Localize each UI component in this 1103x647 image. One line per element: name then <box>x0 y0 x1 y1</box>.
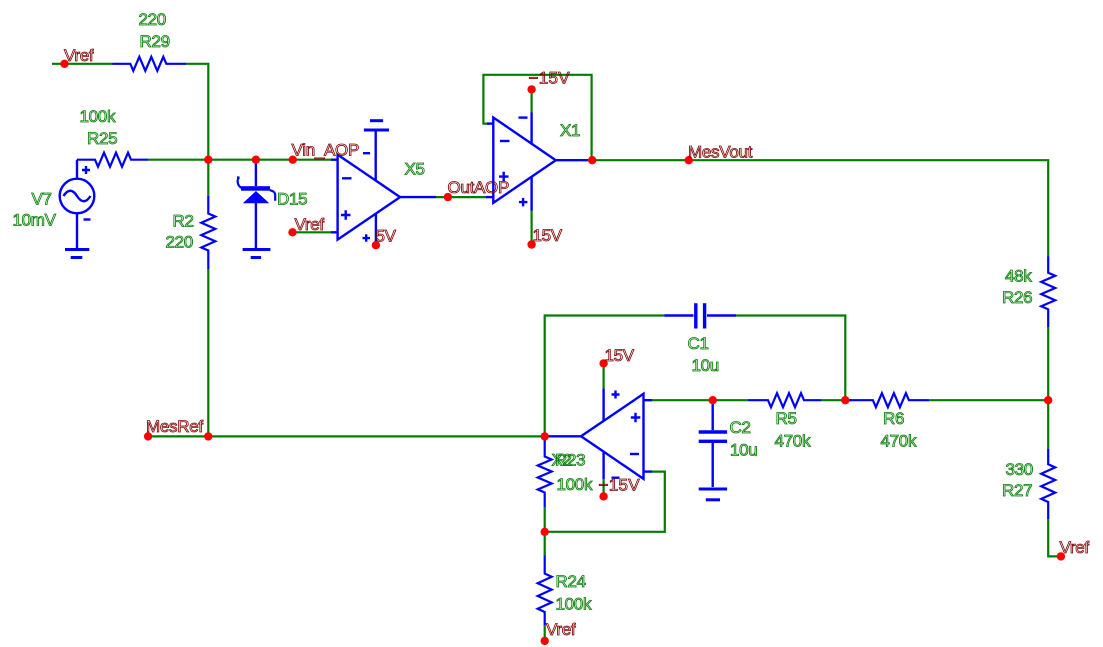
node MesVout <box>685 156 693 164</box>
svg-text:MesVout: MesVout <box>688 142 753 161</box>
svg-text:D15: D15 <box>277 190 307 209</box>
ground below V7 <box>65 250 89 258</box>
svg-text:R23: R23 <box>555 451 585 470</box>
resistor R2 <box>201 196 215 269</box>
svg-text:15V: 15V <box>533 226 563 245</box>
op-amp X1 <box>486 113 588 211</box>
svg-text:10u: 10u <box>692 356 719 375</box>
svg-text:470k: 470k <box>881 431 917 450</box>
svg-text:Vref: Vref <box>546 620 576 639</box>
svg-text:220: 220 <box>166 233 193 252</box>
svg-text:R25: R25 <box>87 129 117 148</box>
svg-text:−15V: −15V <box>599 476 641 495</box>
resistor R25 <box>77 153 148 167</box>
svg-text:R29: R29 <box>140 32 170 51</box>
svg-text:OutAOP: OutAOP <box>448 178 510 197</box>
capacitor C1 <box>664 303 736 328</box>
svg-text:10u: 10u <box>730 440 757 459</box>
resistor R5 <box>748 393 822 407</box>
svg-text:C1: C1 <box>688 334 709 353</box>
node C2 junction <box>709 396 717 404</box>
wire X1 top power to -15V <box>530 89 532 112</box>
svg-text:48k: 48k <box>1005 267 1032 286</box>
op-amp X2 <box>548 388 652 479</box>
resistor R24 <box>538 556 552 626</box>
svg-text:470k: 470k <box>775 431 811 450</box>
resistor R26 <box>1041 256 1055 327</box>
wire X2 minus loop <box>545 472 665 532</box>
wire Vref to R29 <box>52 63 113 65</box>
ground below D15 <box>243 250 271 258</box>
svg-text:R26: R26 <box>1002 288 1032 307</box>
wire right junction to R27 <box>1047 400 1049 448</box>
node OutAOP <box>444 193 452 201</box>
svg-text:−15V: −15V <box>529 68 571 87</box>
wire R25 to X5 minus input <box>148 159 331 161</box>
node 15V X1 <box>527 240 535 248</box>
svg-text:Vref: Vref <box>64 46 94 65</box>
node 5V <box>372 241 380 249</box>
svg-text:C2: C2 <box>730 418 751 437</box>
ground above X5 <box>364 121 389 130</box>
wire R6 junction left lead join <box>845 399 852 401</box>
wire R6 to right junction <box>929 399 1048 401</box>
capacitor C2 <box>699 400 727 487</box>
node 15V X2 <box>599 359 607 367</box>
source V7 <box>60 160 95 249</box>
node X2 output junction <box>541 432 549 440</box>
wire X2 plus input to C2 junction to R5 <box>652 399 748 401</box>
svg-text:R6: R6 <box>883 409 904 428</box>
svg-text:R2: R2 <box>173 212 194 231</box>
wire MesRef run <box>148 435 550 437</box>
node main junction R29/R25/R2 <box>204 156 212 164</box>
node -15V X2 <box>599 492 607 500</box>
wire R5 to R6 junction <box>821 399 848 401</box>
svg-text:100k: 100k <box>557 475 593 494</box>
wire C1 right to junction <box>736 316 845 401</box>
wire R29 to corner to junction <box>186 64 208 196</box>
node Vref bottom <box>541 637 549 645</box>
node right junction R26/R6/R27 <box>1044 396 1052 404</box>
wire X2 top power to 15V <box>602 363 604 388</box>
node Vref at X5 plus <box>288 228 296 236</box>
node Vin_AOP <box>289 156 297 164</box>
resistor R29 <box>113 57 187 71</box>
wire R24 segments <box>544 532 546 556</box>
node MesRef left <box>144 432 152 440</box>
node -15V X1 <box>527 85 535 93</box>
svg-text:V7: V7 <box>32 190 52 209</box>
wire R2 bottom to MesRef line <box>207 269 209 436</box>
node Vref bottom right <box>1057 552 1065 560</box>
wire R23 junction segments <box>544 436 546 441</box>
wire OutAOP X5 output to X1 plus input <box>436 196 487 198</box>
node MesRef junction R2 <box>204 432 212 440</box>
wire X1 bottom power to 15V <box>530 210 532 245</box>
wire MesVout run <box>588 160 1048 256</box>
svg-text:15V: 15V <box>605 346 635 365</box>
wire X1 feedback loop <box>483 75 591 160</box>
resistor R6 <box>848 393 929 407</box>
svg-text:R5: R5 <box>776 409 797 428</box>
resistor R23 <box>538 440 552 507</box>
wire C1 loop left vertical <box>545 316 665 437</box>
svg-text:10mV: 10mV <box>13 211 57 230</box>
node D15 top <box>252 156 260 164</box>
ground below C2 <box>699 489 727 500</box>
svg-text:220: 220 <box>139 10 166 29</box>
op-amp X5 <box>331 131 436 245</box>
svg-text:Vref: Vref <box>295 215 325 234</box>
components-group <box>77 57 1055 626</box>
wire R26 to right junction <box>1047 327 1049 400</box>
svg-text:R24: R24 <box>556 572 586 591</box>
zener diode D15 <box>237 161 275 249</box>
svg-text:Vref: Vref <box>1060 538 1090 557</box>
node R5/R6/C1 junction <box>841 396 849 404</box>
svg-text:X1: X1 <box>560 121 580 140</box>
resistor R27 <box>1041 449 1055 520</box>
svg-text:X5: X5 <box>405 160 425 179</box>
svg-text:Vin_AOP: Vin_AOP <box>292 141 360 160</box>
wire X2 bottom power to -15V <box>602 479 604 496</box>
svg-text:100k: 100k <box>80 107 116 126</box>
node feedback junction X1 <box>588 156 596 164</box>
node R23/R24 junction <box>541 528 549 536</box>
wire R27 to Vref bottom right <box>1048 519 1061 556</box>
svg-text:MesRef: MesRef <box>146 417 203 436</box>
svg-text:R27: R27 <box>1002 481 1032 500</box>
wire Vref stub to X5 plus input <box>293 231 332 233</box>
svg-text:330: 330 <box>1006 460 1033 479</box>
svg-text:5V: 5V <box>376 227 397 246</box>
svg-text:100k: 100k <box>556 595 592 614</box>
node Vref top-left <box>60 60 68 68</box>
